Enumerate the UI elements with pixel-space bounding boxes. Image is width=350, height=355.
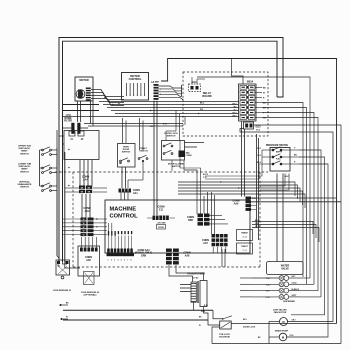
svg-text:BB3: BB3 xyxy=(188,219,193,222)
wire lock to right xyxy=(231,323,336,325)
svg-text:SWITCH: SWITCH xyxy=(172,166,181,168)
svg-text:FILTER: FILTER xyxy=(64,121,72,123)
svg-text:GG1: GG1 xyxy=(191,81,197,84)
svg-text:3: 3 xyxy=(114,259,115,261)
wires AA2 down to AA5 pins xyxy=(81,237,83,248)
tilt switch contact xyxy=(138,158,140,160)
wire GG1 right xyxy=(197,78,205,80)
svg-text:GY-2: GY-2 xyxy=(257,155,261,157)
filter box terminal blocks J1 J2 xyxy=(69,131,75,136)
wire2 to BB3 xyxy=(180,141,201,214)
wire y116 from frame xyxy=(63,116,239,118)
svg-text:SWITCH: SWITCH xyxy=(122,152,131,154)
fan/drain left wires + vertical xyxy=(269,321,280,323)
svg-text:DRAIN PUMP: DRAIN PUMP xyxy=(275,330,289,333)
right long vertical wires (mid bundle feeds) xyxy=(178,182,299,222)
connector AA3 cells xyxy=(107,249,110,253)
wires AA4 bottom to AA2 top xyxy=(81,194,83,218)
svg-text:P-6: P-6 xyxy=(151,82,154,84)
wire to conn AA5 xyxy=(65,262,80,268)
dashed line machine control left xyxy=(72,172,74,267)
svg-text:R-24: R-24 xyxy=(204,304,208,307)
motor box xyxy=(75,77,93,101)
svg-text:2: 2 xyxy=(111,259,112,261)
pressure switch contacts rows xyxy=(272,149,274,151)
AA5 plug xyxy=(84,272,95,285)
svg-text:AA9: AA9 xyxy=(234,203,239,206)
water valve box xyxy=(267,262,304,275)
svg-text:SWITCH: SWITCH xyxy=(20,187,29,189)
pressure switch left stubs xyxy=(262,149,272,151)
svg-text:BOARD: BOARD xyxy=(202,95,211,98)
svg-text:BK-1: BK-1 xyxy=(243,319,247,321)
valve row stubs xyxy=(240,277,252,279)
svg-text:C11: C11 xyxy=(159,209,164,212)
svg-text:W: W xyxy=(66,317,68,319)
tub switch chain vertical left xyxy=(39,150,41,186)
svg-text:BB14: BB14 xyxy=(247,81,254,84)
service door switch contact xyxy=(120,160,122,162)
node dot 2 xyxy=(61,318,63,320)
wire GG2 to right vertical xyxy=(254,125,342,344)
svg-text:BR-3: BR-3 xyxy=(257,162,261,164)
svg-text:DISPENSER: DISPENSER xyxy=(283,301,295,303)
connector AA6 xyxy=(179,151,186,158)
svg-text:SWITCH: SWITCH xyxy=(139,150,148,152)
door box under C11 xyxy=(157,225,166,230)
wires AA7 down xyxy=(212,247,214,253)
motor terminal strip xyxy=(86,88,91,89)
svg-text:8: 8 xyxy=(131,259,132,261)
BB14 wire stub up to y58 line xyxy=(232,58,244,84)
wires BB3 right xyxy=(210,214,223,216)
svg-text:R-1: R-1 xyxy=(234,109,237,111)
svg-text:AA7: AA7 xyxy=(203,242,208,245)
svg-text:M: M xyxy=(282,320,284,324)
AA5 top pins xyxy=(80,248,83,252)
wire GG2 lower xyxy=(240,129,333,322)
transformer primary winding xyxy=(191,282,196,302)
svg-text:SWITCH: SWITCH xyxy=(20,171,29,173)
connector GG1 dashed xyxy=(189,84,201,92)
connector AA2 cells xyxy=(81,218,87,221)
transformer wires xyxy=(180,284,191,286)
dashed line machine control top xyxy=(55,171,268,173)
wires door switches down to CONN AA1 xyxy=(121,167,123,188)
motor control box xyxy=(122,73,149,101)
tub lock solenoid box xyxy=(220,321,232,329)
wire GG1 up xyxy=(191,77,193,84)
svg-text:CONN: CONN xyxy=(186,155,192,157)
wire ps to machine control xyxy=(205,150,262,176)
svg-text:A V AC: A V AC xyxy=(193,276,200,279)
door lock switch box xyxy=(162,141,185,161)
dashed line machine control bottom xyxy=(73,266,260,268)
svg-text:V-13: V-13 xyxy=(203,177,207,179)
svg-text:OR-7: OR-7 xyxy=(292,320,296,322)
svg-text:BU-21: BU-21 xyxy=(255,220,260,222)
lock switch contact xyxy=(222,318,224,320)
pressure switch right stubs xyxy=(282,149,293,151)
svg-text:1: 1 xyxy=(108,259,109,261)
arrow on motor wire xyxy=(112,104,114,106)
wire bottom1 to lock xyxy=(213,310,223,318)
svg-text:W-25: W-25 xyxy=(201,311,205,313)
svg-text:PRESSURE SWITCH: PRESSURE SWITCH xyxy=(266,145,289,147)
svg-text:NOISE: NOISE xyxy=(64,118,72,120)
svg-text:SWITCH: SWITCH xyxy=(167,136,176,138)
wires bundle down to service door / tilt switches xyxy=(122,118,124,143)
wire top feed y58 xyxy=(161,59,337,324)
svg-text:W-9: W-9 xyxy=(150,126,153,128)
motor bottom-right wires down xyxy=(90,101,92,124)
wire to coin sensor 1 xyxy=(58,262,60,266)
wires door lock cluster xyxy=(165,131,167,141)
svg-text:DOOR: DOOR xyxy=(158,227,164,229)
svg-text:BK-2: BK-2 xyxy=(200,103,204,105)
door lock switch contacts xyxy=(163,145,165,147)
wires AA4 left xyxy=(65,187,79,189)
wires BB14 bottom down to AA9 xyxy=(241,121,243,197)
wire x181 stub xyxy=(181,85,183,96)
svg-text:VERTICAL: VERTICAL xyxy=(19,181,31,184)
svg-text:(OPTIONAL): (OPTIONAL) xyxy=(84,294,97,297)
mc right bundle y221-227 xyxy=(252,222,313,235)
motor symbol xyxy=(76,90,85,99)
wires CONN AA1 down into machine control xyxy=(120,192,122,201)
svg-text:CONN: CONN xyxy=(133,190,140,192)
svg-text:BU-12: BU-12 xyxy=(203,174,208,176)
svg-text:GRN: GRN xyxy=(141,255,146,257)
wire bottom long 1 xyxy=(63,309,213,311)
svg-text:AA1: AA1 xyxy=(133,192,138,195)
connector AA9 cells xyxy=(246,197,252,200)
svg-text:AA8: AA8 xyxy=(185,255,190,258)
wires AA2 sides xyxy=(63,218,81,220)
wires GG2 area down to TBB region xyxy=(256,134,258,228)
connector AA4 cells xyxy=(79,186,85,189)
conn AA5 box xyxy=(78,246,100,276)
TBB47 box xyxy=(237,230,253,241)
verticals dropping from bundle at x176-185 xyxy=(175,111,177,132)
connector BB14 body xyxy=(239,84,257,121)
wires AA8 down to transformer xyxy=(169,265,193,282)
connector AA3 lower bar xyxy=(107,253,135,256)
svg-text:TRANSFORMER: TRANSFORMER xyxy=(187,273,205,276)
pressure switch box xyxy=(270,148,290,172)
wire GG1 to BB14 top xyxy=(197,77,310,278)
connector AA1 strip xyxy=(119,189,122,193)
wires AA9 xyxy=(251,197,256,199)
transformer secondary box xyxy=(200,281,207,307)
wire bottom2 to lock xyxy=(208,320,220,325)
svg-text:DISPLACE-: DISPLACE- xyxy=(19,147,31,150)
wire L1 outer frame xyxy=(59,38,283,263)
wire y128 filter to right xyxy=(88,125,183,127)
svg-text:R-10: R-10 xyxy=(163,124,167,126)
transformer core lines xyxy=(197,281,199,303)
wire bundle motor control to BB14 xyxy=(99,101,239,103)
svg-text:W-5: W-5 xyxy=(233,106,236,108)
BB14 right wires to right-edge verticals xyxy=(262,103,303,278)
wire bend xyxy=(57,256,59,262)
service door switch box xyxy=(118,144,136,168)
arrow on motor wire xyxy=(104,97,106,99)
wire to coin sensor 1 b xyxy=(63,262,68,264)
svg-text:A-BB1: A-BB1 xyxy=(153,81,160,84)
machine control box xyxy=(105,200,250,253)
svg-text:BU-4: BU-4 xyxy=(233,111,237,114)
svg-text:W-11: W-11 xyxy=(257,148,261,150)
svg-text:AA5: AA5 xyxy=(86,259,91,262)
svg-text:5: 5 xyxy=(121,259,122,261)
wires stack down to C11 xyxy=(153,101,155,215)
machine control comb pins xyxy=(108,223,110,231)
svg-text:MACHINE: MACHINE xyxy=(110,207,137,213)
relay board dashed outline xyxy=(183,72,268,136)
svg-text:M: M xyxy=(282,336,284,340)
wire N inner frame xyxy=(63,41,278,262)
svg-text:CONN AA3: CONN AA3 xyxy=(137,249,150,252)
svg-text:GY-23: GY-23 xyxy=(255,226,260,228)
connector AA8 cells xyxy=(166,249,172,252)
left bundle emphasis xyxy=(58,41,60,262)
node dot 1 xyxy=(60,304,62,306)
wires machine control right to verticals xyxy=(178,182,295,196)
fan motor circle xyxy=(280,318,288,326)
svg-text:+12V GND: +12V GND xyxy=(157,223,166,225)
drain pump circle xyxy=(279,333,287,341)
svg-text:GY-9: GY-9 xyxy=(256,130,260,132)
wires BB3 region verticals above MC xyxy=(203,196,205,214)
switch VERTICAL xyxy=(42,185,44,187)
wire bottom-most xyxy=(212,343,341,345)
svg-text:EMPTY: EMPTY xyxy=(276,151,283,153)
svg-text:BLEACH: BLEACH xyxy=(292,288,300,291)
svg-text:COLD: COLD xyxy=(292,283,298,285)
wire y125 filter to right xyxy=(84,123,183,125)
wire left bundle v2 xyxy=(64,152,66,262)
wires AA9 right to far verticals xyxy=(251,197,337,199)
svg-text:W: W xyxy=(263,93,265,95)
svg-text:GY-8: GY-8 xyxy=(290,335,294,337)
svg-text:CONTROL: CONTROL xyxy=(129,77,142,81)
wire ps lower xyxy=(205,164,262,179)
BB14 pin cells xyxy=(240,85,246,89)
wires filter to frame verticals xyxy=(59,135,64,137)
wires door lock right xyxy=(185,142,205,144)
svg-text:MOTOR: MOTOR xyxy=(79,79,88,82)
motor control pins xyxy=(126,83,128,96)
pressure switch contact dots xyxy=(272,149,274,151)
wire door cluster to BB3 xyxy=(184,160,197,214)
pressure switch down wires xyxy=(260,174,285,187)
dashed line machine control right xyxy=(259,172,261,267)
capacitor symbol xyxy=(71,123,74,134)
arrows sprinkled xyxy=(118,103,120,105)
switch LOWER TUB xyxy=(42,167,44,169)
svg-text:VALVE: VALVE xyxy=(281,268,289,271)
wires from stack to x182 xyxy=(159,86,183,88)
svg-text:COIN SENSOR #1: COIN SENSOR #1 xyxy=(53,290,72,292)
svg-text:6: 6 xyxy=(124,259,125,261)
connector BB3 cells xyxy=(198,214,204,218)
svg-text:BK-2: BK-2 xyxy=(233,103,237,105)
connector AA7 cells xyxy=(212,234,216,238)
svg-text:SWITCH: SWITCH xyxy=(20,153,29,155)
svg-text:7: 7 xyxy=(127,259,128,261)
svg-text:TBB17: TBB17 xyxy=(241,246,248,248)
svg-text:FAN MOTOR: FAN MOTOR xyxy=(274,311,287,314)
wires valve rows to right verticals xyxy=(300,277,310,279)
bundle lines extending to left frame xyxy=(63,110,99,112)
coin sensor 1 plug xyxy=(56,260,70,275)
svg-text:W-5: W-5 xyxy=(200,109,203,111)
svg-text:CONTROL: CONTROL xyxy=(110,214,139,220)
connector GG2 xyxy=(244,122,254,129)
svg-text:SOLENOID: SOLENOID xyxy=(219,337,230,339)
switch UPPER TUB xyxy=(42,149,44,151)
wires motor box down to filter xyxy=(77,101,79,122)
svg-text:BR-3: BR-3 xyxy=(233,115,237,117)
lock switch blade xyxy=(223,316,232,319)
BB14 right stubs with labels xyxy=(255,87,262,89)
svg-text:TBB47: TBB47 xyxy=(241,232,248,235)
wires pressure switch down to valve box xyxy=(276,174,278,262)
svg-text:DOOR LOCK: DOOR LOCK xyxy=(243,327,256,329)
wire left bundle v1 xyxy=(56,148,58,256)
svg-text:GG2: GG2 xyxy=(256,126,262,129)
wire bottom long 2 xyxy=(63,319,208,321)
arrow on motor wire xyxy=(108,100,110,102)
filter box J1 J2 xyxy=(64,131,99,160)
svg-text:UNBALANCE: UNBALANCE xyxy=(18,183,32,186)
wire dot2 stub xyxy=(62,318,69,320)
svg-text:(SIGNAL ONLY): (SIGNAL ONLY) xyxy=(135,252,152,255)
wire bundle motor to motor control xyxy=(91,90,124,97)
wires filter box bottom to CONN AA4 xyxy=(79,160,81,186)
wire dot1 stub xyxy=(61,304,69,306)
wire lock down to bottom xyxy=(212,327,220,344)
svg-text:DISPLACE-: DISPLACE- xyxy=(19,165,31,168)
svg-text:AA2: AA2 xyxy=(84,210,90,213)
connector C11 cells xyxy=(153,216,156,221)
TBB17 box xyxy=(237,243,253,254)
